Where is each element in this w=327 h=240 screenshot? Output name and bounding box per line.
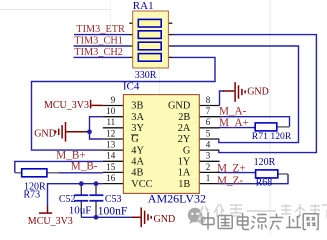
wire pin2 M_Z+ to R68 left [219,172,256,174]
svg-text:120R: 120R [254,157,276,168]
light watermark text row [199,204,327,218]
svg-text:10: 10 [106,106,116,116]
svg-text:9: 9 [111,95,116,105]
sheet zone border lines [0,9,111,11]
svg-text:RA1: RA1 [133,0,154,12]
resistor R71 body [255,123,277,131]
RA1 element 1 [138,19,161,27]
svg-text:330R: 330R [135,70,157,81]
resistor R68 body [256,170,278,178]
wire pin6 M_A+ to R71 left [219,127,255,129]
svg-text:11: 11 [107,117,116,127]
wire M_B+ to R73 left [15,161,103,172]
svg-text:G: G [131,134,139,145]
wire pin16 VCC rail [48,184,103,206]
svg-text:8: 8 [206,95,211,105]
svg-text:AM26LV32: AM26LV32 [148,191,206,205]
svg-text:2: 2 [206,162,211,172]
wire pin8 riser to GND [220,91,225,106]
svg-text:IC4: IC4 [123,81,140,93]
svg-text:1: 1 [206,173,211,183]
wire R73 right to pin15 M_B- [59,172,103,174]
ground bottom (capacitors) [132,208,152,228]
ground right of pin8 [223,82,245,102]
svg-text:1B: 1B [178,179,190,190]
svg-text:MCU_3V3: MCU_3V3 [28,216,73,227]
wire pin10 to gnd vertical [90,117,103,139]
RA1 right stubs [161,22,172,24]
junction pins10/12 GND [87,129,92,134]
svg-text:MCU_3V3: MCU_3V3 [44,100,89,111]
svg-text:GND: GND [168,101,191,112]
junction C52 top [79,181,84,186]
svg-text:M_B-: M_B- [71,161,98,173]
capacitor C53 plates [89,194,103,196]
IC4 left pin numbers 9-16 [106,95,116,183]
ground left (pins 10/12) [56,122,90,142]
svg-text:G: G [183,145,191,156]
wire cap bottom rail to GND [81,216,131,218]
svg-text:R71 120R: R71 120R [252,131,292,142]
IC4 right pin stubs 8-1 [199,105,219,107]
svg-text:4: 4 [206,140,211,150]
RA1 element 2 [138,31,161,39]
svg-text:4A: 4A [131,157,144,168]
power port MCU_3V3 bottom [39,206,52,213]
svg-text:4B: 4B [131,168,143,179]
svg-text:3B: 3B [131,101,143,112]
svg-text:14: 14 [106,151,116,161]
svg-text:R73: R73 [24,190,41,201]
capacitor C52 plates [74,195,103,201]
svg-text:TIM3_CH1: TIM3_CH1 [74,35,123,46]
svg-text:M_Z-: M_Z- [217,175,243,187]
R68 right stub [278,173,288,175]
resistor array RA1 body [133,11,169,68]
junction C53 bottom [94,215,99,220]
wire TIM3_ETR to RA1-R2 [74,34,129,36]
R73 stubs [15,172,22,174]
svg-text:TIM3_ETR: TIM3_ETR [76,24,125,35]
wire TIM3_CH2 to RA1-R4 [74,56,130,58]
svg-text:VCC: VCC [131,179,152,190]
svg-text:C52: C52 [59,194,76,205]
svg-text:2Y: 2Y [178,134,191,145]
svg-text:100nF: 100nF [98,204,128,217]
svg-text:10uF: 10uF [69,205,92,217]
svg-text:1Y: 1Y [178,157,191,168]
svg-text:16: 16 [106,173,116,183]
svg-text:15: 15 [106,162,116,172]
svg-text:GND: GND [154,214,176,225]
svg-text:6: 6 [206,117,211,127]
wire TIM3_CH1 to RA1-R3 [74,45,130,47]
IC4 right pin names [168,101,191,190]
svg-text:3Y: 3Y [131,123,144,134]
svg-text:3: 3 [206,151,211,161]
svg-text:GND: GND [247,87,269,98]
svg-text:13: 13 [106,140,116,150]
resistor R73 body [22,169,47,177]
svg-text:TIM3_CH2: TIM3_CH2 [74,47,123,58]
R71 right stub [277,126,290,128]
overline for pin12 G [131,134,138,136]
wire pin1 M_Z- to R68 right [219,174,288,184]
wire RA1-R2 right to IC4 pin4 [172,35,316,153]
svg-text:12: 12 [106,128,115,138]
svg-text:GND: GND [34,128,56,139]
wire RA1-R3 right to IC4 pin5 [172,46,299,143]
IC4 left pin stubs 9-16 [103,105,124,107]
svg-text:M_A+: M_A+ [219,117,249,129]
wire RA1-R4 right to IC4 pin13 [32,57,216,150]
svg-text:M_Z+: M_Z+ [217,162,246,174]
svg-text:7: 7 [206,106,211,116]
IC IC4 AM26LV32 body [123,95,199,194]
svg-text:1A: 1A [178,168,191,179]
big watermark text (hanzi approximations) [202,213,318,230]
RA1 element 4 [138,54,161,62]
svg-text:4Y: 4Y [131,145,144,156]
RA1 element 3 [138,42,161,50]
svg-text:2A: 2A [178,123,191,134]
svg-text:R68: R68 [256,178,273,189]
IC4 right pin numbers 8-1 [206,95,211,183]
capacitor C52 and C53 leads [81,184,96,218]
svg-text:5: 5 [206,128,211,138]
svg-text:2B: 2B [178,112,190,123]
junction C53 top [94,181,99,186]
svg-text:3A: 3A [131,112,144,123]
svg-text:M_A-: M_A- [219,106,247,118]
RA1 left stubs [129,22,138,24]
IC4 left pin names [131,101,152,190]
wire pin7 M_A- to R71 right [219,117,290,127]
